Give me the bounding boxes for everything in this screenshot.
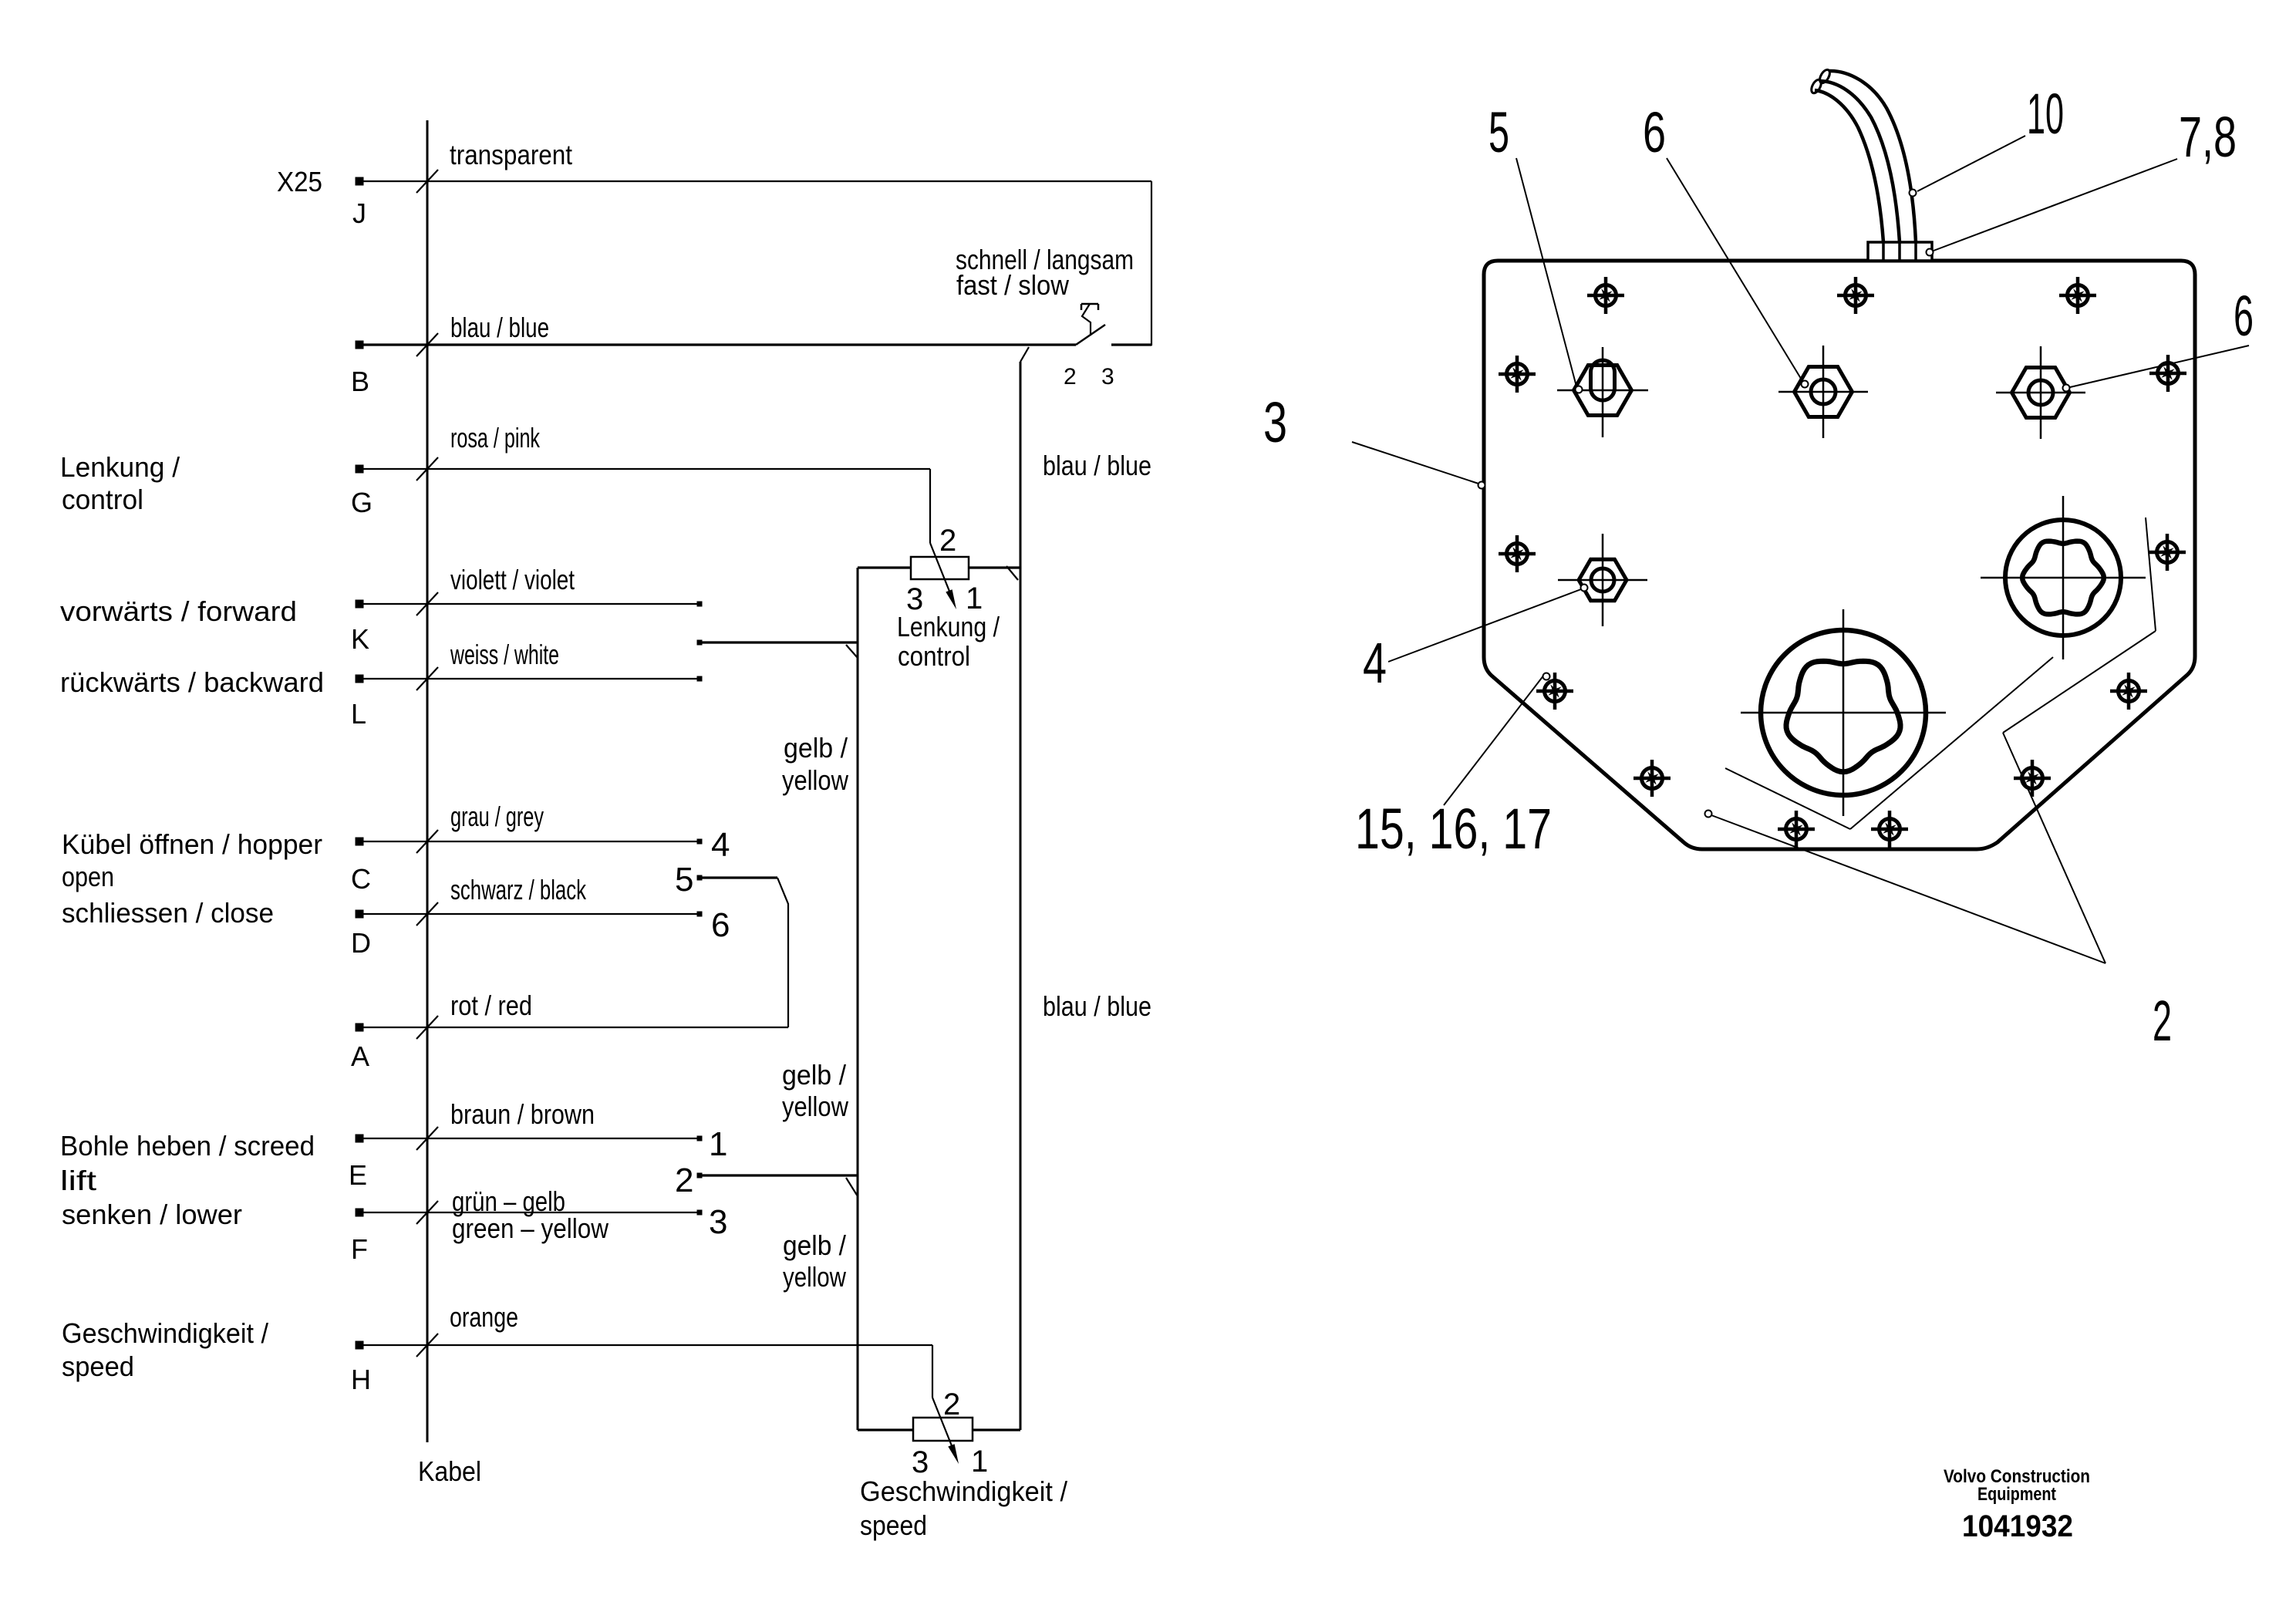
svg-text:1041932: 1041932 [1962,1509,2073,1543]
svg-text:2: 2 [2153,989,2172,1053]
svg-text:F: F [351,1233,368,1265]
svg-text:6: 6 [711,906,730,944]
svg-text:Equipment: Equipment [1977,1484,2056,1505]
svg-text:vorwärts / forward: vorwärts / forward [60,595,297,627]
svg-text:Geschwindigkeit /: Geschwindigkeit / [860,1475,1067,1507]
svg-text:fast / slow: fast / slow [956,269,1070,301]
svg-text:rückwärts / backward: rückwärts / backward [60,666,324,698]
svg-text:10: 10 [2027,82,2064,146]
svg-text:1: 1 [971,1445,988,1479]
svg-text:speed: speed [860,1509,927,1541]
svg-text:weiss / white: weiss / white [450,639,559,670]
svg-text:control: control [62,484,143,515]
svg-text:yellow: yellow [782,764,849,796]
svg-text:D: D [351,927,371,959]
svg-text:15, 16, 17: 15, 16, 17 [1355,797,1552,861]
svg-text:1: 1 [709,1125,727,1163]
svg-text:senken / lower: senken / lower [62,1199,242,1230]
svg-text:3: 3 [1101,364,1114,389]
svg-text:blau / blue: blau / blue [1043,450,1151,481]
svg-text:H: H [351,1364,371,1395]
svg-text:yellow: yellow [782,1091,849,1122]
svg-text:3: 3 [1263,390,1287,454]
svg-text:Geschwindigkeit /: Geschwindigkeit / [62,1317,268,1349]
svg-text:X25: X25 [277,166,322,197]
svg-text:6: 6 [1643,100,1666,164]
svg-text:Lenkung /: Lenkung / [60,451,180,483]
svg-text:gelb /: gelb / [784,732,848,764]
svg-text:2: 2 [1064,364,1077,389]
svg-text:L: L [351,698,366,730]
svg-text:transparent: transparent [450,139,572,170]
svg-text:2: 2 [943,1388,960,1421]
svg-text:Kabel: Kabel [418,1455,481,1487]
svg-text:Bohle heben / screed: Bohle heben / screed [60,1130,315,1162]
svg-text:gelb /: gelb / [783,1229,846,1261]
svg-text:E: E [349,1159,367,1191]
svg-text:speed: speed [62,1351,134,1382]
svg-text:6: 6 [2234,284,2254,348]
svg-text:yellow: yellow [783,1261,847,1293]
svg-text:5: 5 [675,861,693,899]
svg-text:2: 2 [939,524,956,558]
svg-text:Kübel öffnen / hopper: Kübel öffnen / hopper [62,828,322,860]
svg-text:grau / grey: grau / grey [450,801,544,832]
svg-text:rot / red: rot / red [450,990,532,1021]
svg-text:J: J [352,197,366,229]
svg-text:Lenkung /: Lenkung / [897,611,1000,642]
svg-text:blau / blue: blau / blue [1043,990,1151,1022]
svg-text:schwarz / black: schwarz / black [450,874,587,905]
svg-text:braun / brown: braun / brown [450,1098,595,1130]
svg-text:open: open [62,861,114,892]
svg-text:2: 2 [675,1162,693,1199]
svg-text:4: 4 [1363,631,1387,695]
svg-text:5: 5 [1489,100,1509,164]
svg-text:green – yellow: green – yellow [452,1212,609,1244]
svg-text:4: 4 [711,826,730,864]
svg-text:C: C [351,863,371,895]
svg-text:gelb /: gelb / [782,1059,846,1091]
svg-text:A: A [351,1040,369,1072]
svg-text:lift: lift [60,1165,96,1196]
svg-text:orange: orange [450,1301,518,1333]
svg-text:3: 3 [912,1445,929,1479]
svg-text:blau / blue: blau / blue [450,312,549,343]
svg-text:G: G [351,487,373,518]
svg-text:B: B [351,366,369,397]
svg-text:7,8: 7,8 [2179,105,2237,169]
svg-text:control: control [898,640,970,672]
svg-text:schliessen / close: schliessen / close [62,897,274,929]
svg-text:violett / violet: violett / violet [450,564,575,595]
svg-text:K: K [351,623,369,655]
svg-text:rosa / pink: rosa / pink [450,422,541,454]
svg-text:3: 3 [709,1203,727,1241]
